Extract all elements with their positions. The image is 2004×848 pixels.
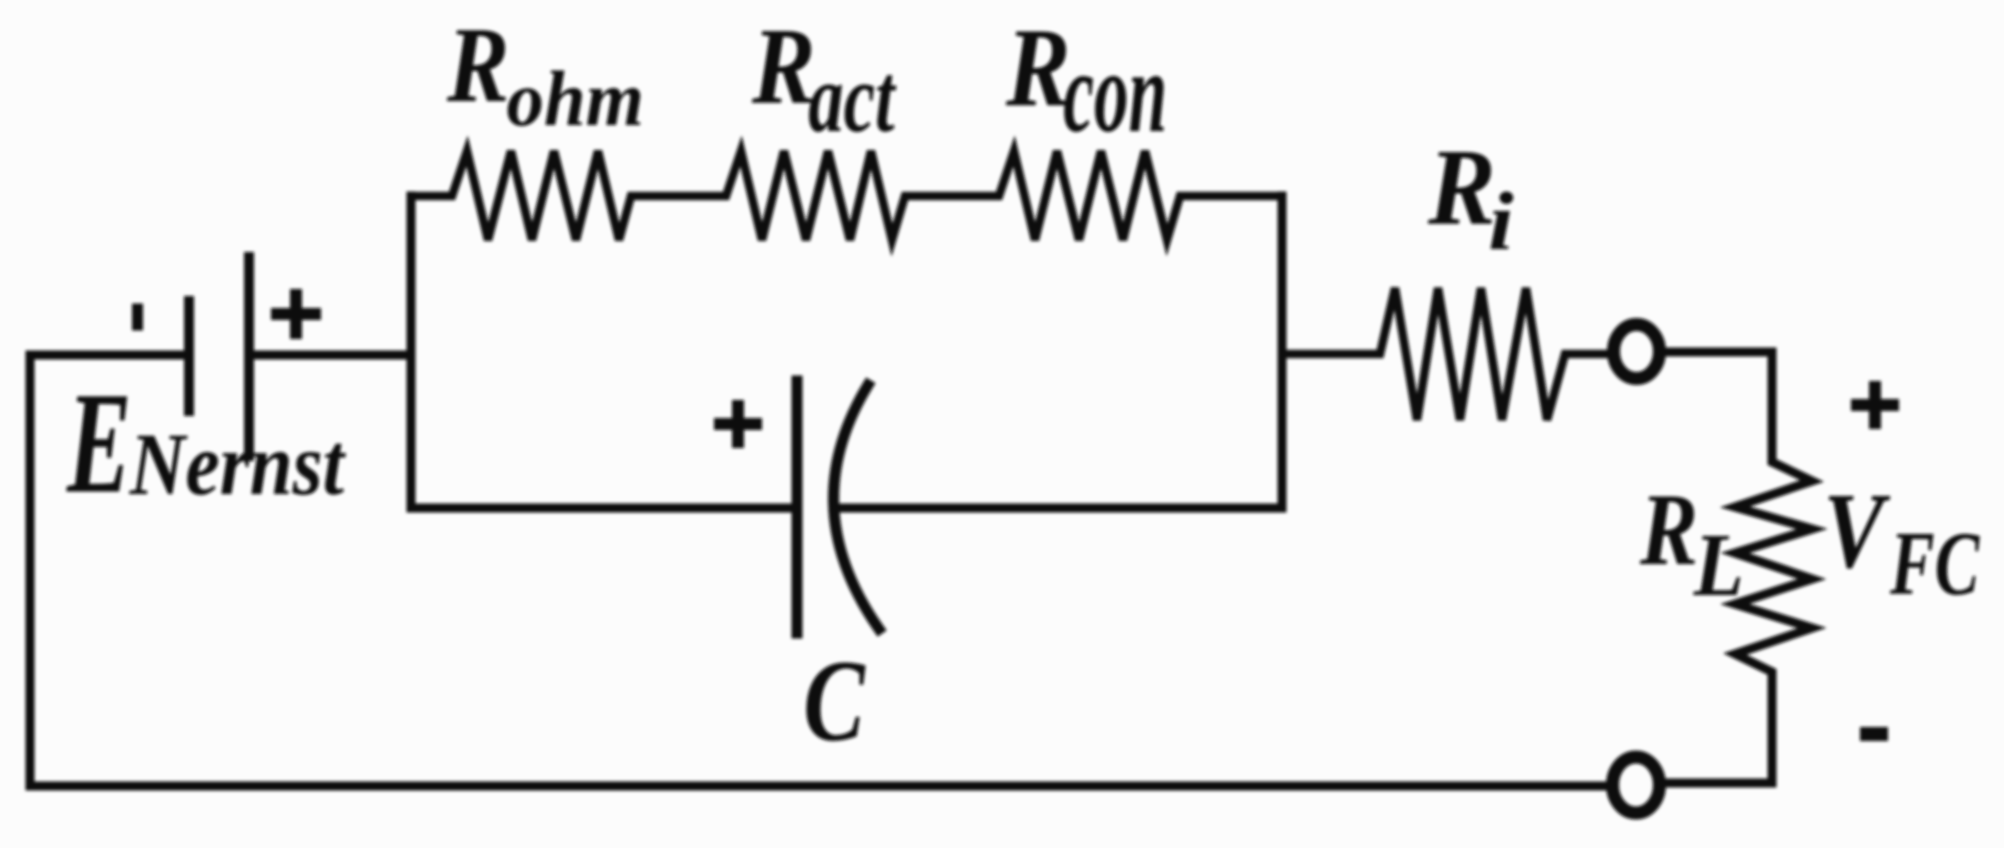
svg-text:con: con bbox=[1063, 26, 1167, 156]
battery minus polarity dash bbox=[132, 309, 143, 325]
wire: battery positive lead to parallel block bbox=[254, 351, 407, 360]
capacitor C right curved plate bbox=[834, 385, 879, 629]
terminal node, bottom output bbox=[1613, 757, 1660, 813]
svg-text:C: C bbox=[803, 636, 866, 766]
resistor R_ohm, resistor R_act, resistor R_con on top branch bbox=[411, 151, 1282, 240]
svg-text:R: R bbox=[1427, 127, 1496, 248]
capacitor plus polarity sign bbox=[720, 406, 756, 442]
wire: parallel block bottom branch, right of capacitor bbox=[838, 504, 1282, 513]
wire: parallel block right vertical bbox=[1278, 196, 1287, 508]
wire: parallel block bottom branch, left of capacitor bbox=[411, 504, 792, 513]
battery E_Nernst long (positive) plate bbox=[244, 257, 254, 456]
minus polarity sign of V_FC bbox=[1867, 727, 1881, 741]
svg-text:R: R bbox=[751, 7, 815, 128]
svg-text:ohm: ohm bbox=[507, 56, 644, 143]
capacitor C left plate bbox=[792, 381, 803, 633]
svg-text:act: act bbox=[808, 44, 896, 153]
svg-text:V: V bbox=[1824, 471, 1892, 591]
svg-text:R: R bbox=[1005, 4, 1070, 129]
svg-text:R: R bbox=[1639, 472, 1698, 587]
svg-text:i: i bbox=[1488, 176, 1513, 267]
svg-text:E: E bbox=[66, 362, 131, 523]
resistor R_i with leads bbox=[1282, 288, 1605, 420]
battery plus polarity sign bbox=[277, 295, 315, 333]
svg-text:R: R bbox=[446, 5, 509, 125]
wire: battery negative lead, left vertical, bottom return wire bbox=[30, 355, 1602, 786]
plus polarity sign of V_FC bbox=[1857, 387, 1893, 423]
wire: top output to load, right vertical, resistor R_L, bottom right corner bbox=[1667, 352, 1812, 783]
svg-text:Nernst: Nernst bbox=[129, 416, 347, 514]
wire: parallel block left vertical bbox=[407, 196, 416, 508]
svg-text:FC: FC bbox=[1889, 514, 1980, 614]
terminal node, top output bbox=[1614, 325, 1660, 379]
battery E_Nernst short (negative) plate bbox=[184, 301, 194, 411]
svg-text:L: L bbox=[1693, 514, 1744, 615]
